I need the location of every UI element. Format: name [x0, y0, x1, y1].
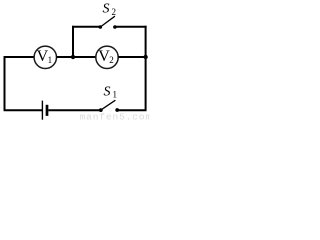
switch S2 right contact: [113, 25, 117, 29]
wire: S2 branch vertical: [72, 26, 74, 57]
svg-text:S: S: [104, 85, 111, 100]
voltmeter V1: [34, 46, 56, 68]
wire: middle rail left segment: [4, 56, 35, 58]
wire: bottom rail left segment: [4, 109, 42, 111]
switch S1 blade: [101, 100, 116, 110]
svg-text:2: 2: [109, 55, 114, 65]
battery short plate (-): [46, 105, 49, 116]
battery long plate (+): [41, 101, 43, 120]
wire: top rail right of S2: [115, 26, 147, 28]
svg-text:1: 1: [48, 55, 53, 65]
wire: left vertical: [4, 56, 6, 110]
svg-text:S: S: [103, 2, 110, 17]
wire: middle rail center segment: [57, 56, 97, 58]
switch S2 blade: [100, 16, 115, 27]
wire: middle rail right segment: [118, 56, 146, 58]
svg-text:manfen5.com: manfen5.com: [80, 112, 151, 122]
switch S1 right contact: [115, 108, 119, 112]
voltmeter V2: [96, 46, 118, 68]
wire: bottom rail right segment: [117, 109, 146, 111]
node junction dot between V1 and V2: [71, 55, 75, 59]
switch S2 left contact: [99, 25, 103, 29]
wire: right vertical: [145, 26, 147, 111]
wire: top rail left of S2: [72, 26, 100, 28]
wire: bottom rail middle segment: [48, 109, 100, 111]
node junction dot on right vertical: [143, 55, 147, 59]
svg-text:1: 1: [113, 90, 118, 100]
switch S1 left contact: [99, 108, 103, 112]
svg-text:2: 2: [112, 7, 117, 17]
